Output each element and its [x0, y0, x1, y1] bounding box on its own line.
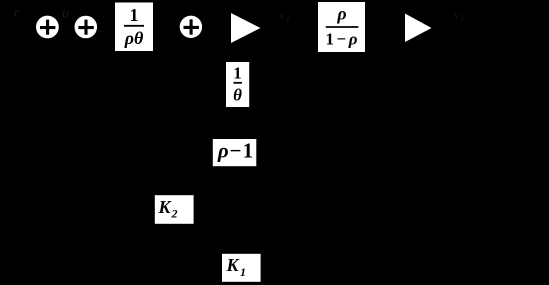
svg-text:x: x	[452, 7, 459, 21]
block K1	[222, 254, 261, 282]
svg-text:K: K	[158, 197, 173, 217]
wire block K2 to S1	[47, 38, 154, 209]
svg-text:1: 1	[460, 13, 464, 23]
svg-text:ρ−1: ρ−1	[217, 139, 253, 163]
integrator triangle A1	[231, 13, 261, 43]
wire block 1/ρθ to summer S3	[153, 26, 180, 28]
block K2	[155, 195, 194, 224]
block G2 ρ/(1-ρ)	[318, 2, 365, 52]
wire x2 down to block 1/θ	[249, 28, 275, 84]
svg-text:1: 1	[233, 64, 242, 83]
svg-text:2: 2	[286, 14, 290, 24]
svg-text:2: 2	[171, 207, 178, 221]
svg-text:ρθ: ρθ	[124, 28, 144, 48]
wire S3 to integrator A1	[202, 26, 231, 28]
svg-text:θ: θ	[233, 86, 242, 105]
wire x2 down to block K2	[194, 28, 305, 210]
svg-text:ρ: ρ	[336, 4, 346, 24]
svg-text:1−ρ: 1−ρ	[326, 30, 358, 49]
wire block K1 to S1	[20, 27, 222, 268]
summing junction S3	[180, 16, 202, 38]
wire r input to summer S1	[10, 26, 36, 28]
block G4 ρ-1	[213, 139, 256, 167]
block G3 1/θ	[226, 62, 249, 107]
wire S2 to block 1/ρθ	[97, 26, 115, 28]
summing junction S1	[36, 16, 59, 39]
wire block ρ/(1-ρ) to integrator A2	[365, 27, 405, 29]
wire block ρ-1 to S2	[86, 38, 213, 152]
wire output y down to block K1	[261, 28, 470, 268]
svg-text:1: 1	[240, 265, 246, 279]
svg-text:x: x	[278, 8, 285, 22]
wire x2 down to block ρ-1	[256, 28, 290, 153]
wire S1 to S2	[59, 26, 75, 28]
wire A1 to block ρ/(1-ρ), node x2	[261, 27, 319, 29]
integrator triangle A2	[405, 14, 432, 43]
svg-text:u: u	[62, 7, 69, 22]
svg-text:1: 1	[130, 5, 139, 25]
wire block 1/θ to S3	[191, 38, 226, 84]
svg-text:K: K	[226, 255, 241, 275]
wire A2 to output y	[432, 27, 521, 29]
summing junction S2	[75, 16, 98, 39]
block G1 1/ρθ	[115, 3, 153, 52]
